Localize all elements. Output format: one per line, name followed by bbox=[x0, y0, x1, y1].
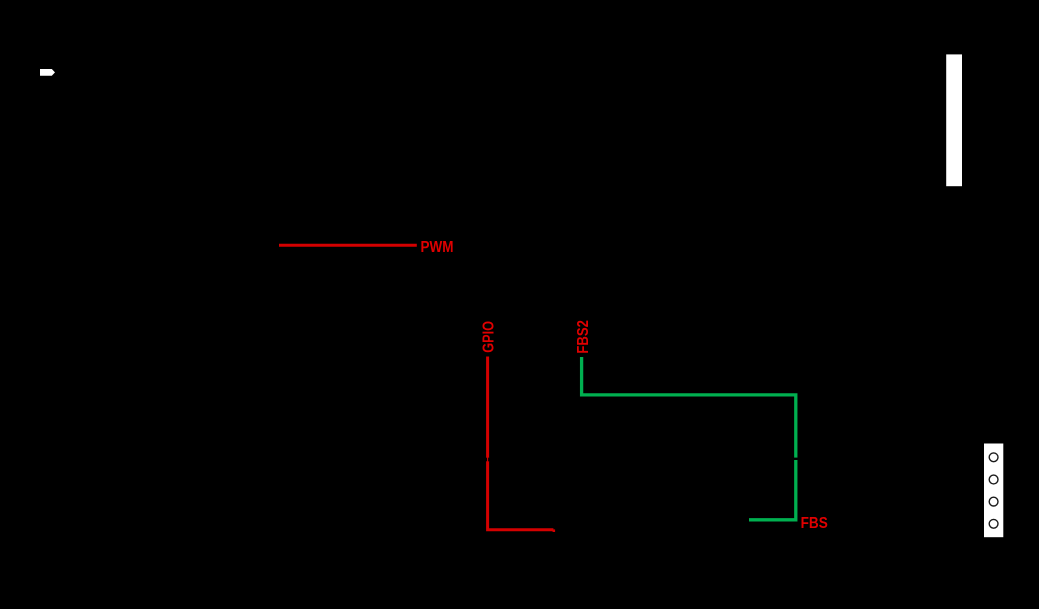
wire GPIO net (red, vertical + bottom horizontal) bbox=[488, 357, 554, 530]
connector J (white body, 4 pins) bbox=[984, 444, 1003, 538]
pin 4 bbox=[989, 519, 998, 528]
junction pinch on GPIO wire bbox=[486, 457, 490, 461]
svg-text:GPIO: GPIO bbox=[481, 321, 498, 353]
pin 3 bbox=[989, 497, 998, 506]
bus FBS net (green) bbox=[582, 357, 796, 520]
svg-text:PWM: PWM bbox=[421, 239, 454, 256]
white vertical bar (top right symbol body) bbox=[946, 54, 962, 186]
wire PWM net (red) bbox=[279, 244, 417, 247]
break in green bus (black gap) bbox=[793, 458, 798, 460]
pin 2 bbox=[989, 475, 998, 484]
wire end marker (red) bbox=[553, 529, 556, 532]
svg-text:FBS2: FBS2 bbox=[575, 320, 592, 354]
hierarchical label flag (top left) bbox=[40, 69, 55, 76]
svg-text:FBS: FBS bbox=[801, 515, 828, 532]
pin 1 bbox=[989, 453, 998, 462]
